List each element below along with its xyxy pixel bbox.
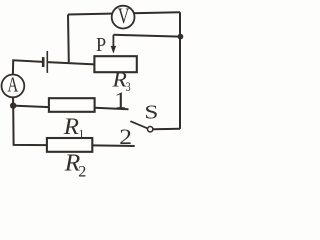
wire: right rail vertical xyxy=(179,12,181,129)
wire: battery left segment to corner and down to ammeter xyxy=(13,60,43,74)
svg-text:1: 1 xyxy=(114,88,126,113)
voltmeter: circle xyxy=(112,6,135,29)
node: left junction dot xyxy=(10,102,16,108)
svg-text:2: 2 xyxy=(78,164,86,178)
resistor R1 xyxy=(49,98,95,112)
battery cell: short thick plate (left) xyxy=(42,57,45,67)
ammeter: circle xyxy=(2,75,25,98)
svg-text:P: P xyxy=(96,34,106,56)
resistor R3 (rheostat body) xyxy=(94,56,136,72)
wire: top horizontal from left loop corner to right rail xyxy=(68,12,180,14)
wire: R1 right to terminal 1 xyxy=(95,108,129,109)
wire: left vertical of top loop xyxy=(67,15,70,63)
wire: battery right segment to rheostat xyxy=(47,62,94,64)
svg-text:2: 2 xyxy=(119,126,132,150)
node: right rail junction dot xyxy=(178,34,184,40)
battery cell: long thin plate (right) xyxy=(46,51,48,73)
svg-text:S: S xyxy=(144,101,158,123)
wire: R2 right to terminal 2 xyxy=(92,144,134,147)
wire: switch to right rail xyxy=(153,128,180,131)
switch S: lever xyxy=(130,121,147,128)
resistor R2 xyxy=(47,138,92,152)
wire: junction down and right to R2 left xyxy=(13,106,47,146)
svg-text:A: A xyxy=(7,73,18,96)
svg-text:V: V xyxy=(118,5,130,29)
rheostat slider arrow xyxy=(111,35,116,54)
wire: slider tap horizontal to right rail xyxy=(113,35,180,37)
wire: junction to R1 left xyxy=(13,106,49,108)
svg-text:R: R xyxy=(63,114,79,140)
switch S: pivot circle xyxy=(148,127,153,132)
wire: ammeter bottom to junction xyxy=(12,97,14,105)
